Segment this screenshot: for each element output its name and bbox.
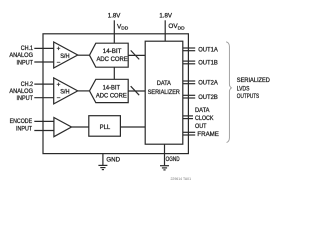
svg-text:PLL: PLL (100, 124, 111, 131)
svg-text:ADC CORE: ADC CORE (96, 56, 127, 63)
S/H amplifier A1 (CH1) (54, 42, 78, 68)
wire S/H2 to ADC2 (78, 90, 90, 92)
svg-text:ANALOG: ANALOG (9, 52, 33, 59)
svg-text:ENCODE: ENCODE (10, 118, 33, 125)
bus slash 2 (131, 86, 140, 95)
svg-text:229614 TA01: 229614 TA01 (171, 177, 192, 181)
svg-text:OUT2A: OUT2A (198, 80, 218, 87)
svg-text:1.8V: 1.8V (159, 13, 172, 20)
VDD supply line between ADC cores (113, 67, 115, 79)
svg-text:14-BIT: 14-BIT (103, 48, 122, 55)
ADC core 2 pentagon (90, 79, 129, 102)
svg-text:SERIALIZED: SERIALIZED (237, 77, 270, 84)
svg-text:SERIALIZER: SERIALIZER (148, 89, 180, 96)
svg-text:−: − (57, 95, 61, 102)
svg-text:OGND: OGND (166, 156, 180, 163)
svg-text:OUTPUTS: OUTPUTS (237, 93, 259, 100)
pin OUT1A pair (183, 47, 195, 49)
svg-text:OUT1B: OUT1B (198, 60, 218, 67)
VDD supply line top (113, 20, 115, 43)
wire ADC1 to serializer (128, 54, 145, 56)
svg-text:DATA: DATA (157, 80, 172, 87)
svg-text:CH.2: CH.2 (21, 81, 34, 88)
svg-text:LVDS: LVDS (237, 85, 250, 92)
brace serialized outputs (226, 42, 231, 143)
wire PLL to serializer (120, 126, 145, 128)
ADC core 1 pentagon (90, 43, 129, 67)
wire ENCODE - input (34, 130, 54, 132)
ground symbol GND (98, 165, 107, 169)
svg-text:ADC CORE: ADC CORE (96, 92, 127, 99)
svg-text:OUT2B: OUT2B (198, 94, 218, 101)
svg-text:OVDD: OVDD (168, 23, 185, 31)
wire CH1 - input (34, 61, 53, 63)
svg-text:GND: GND (106, 156, 120, 163)
svg-text:DATA: DATA (195, 107, 210, 114)
svg-text:ANALOG: ANALOG (9, 88, 33, 95)
data serializer box (145, 41, 183, 144)
svg-text:INPUT: INPUT (17, 60, 34, 67)
wire CH2 + input (34, 83, 53, 85)
svg-text:INPUT: INPUT (16, 126, 32, 133)
pin DATA CLOCK OUT pair (183, 115, 193, 117)
PLL box (89, 116, 121, 137)
GND drop wire (102, 154, 104, 166)
svg-text:OUT1A: OUT1A (198, 47, 218, 54)
wire CH1 + input (34, 47, 53, 49)
svg-text:INPUT: INPUT (17, 95, 34, 102)
svg-text:S/H: S/H (60, 89, 70, 96)
pin OUT1B pair (183, 60, 195, 62)
svg-text:CH.1: CH.1 (21, 45, 34, 52)
pin FRAME pair (183, 131, 195, 133)
wire encode buffer to PLL (72, 126, 89, 128)
svg-text:VDD: VDD (117, 23, 129, 31)
svg-text:−: − (57, 59, 61, 66)
bus slash 1 (131, 50, 140, 59)
svg-text:OUT: OUT (195, 123, 207, 130)
svg-text:1.8V: 1.8V (108, 13, 121, 20)
svg-text:FRAME: FRAME (197, 131, 219, 138)
wire ADC2 to serializer (128, 90, 145, 92)
svg-text:+: + (57, 81, 61, 88)
ground symbol OGND (160, 166, 169, 170)
svg-text:14-BIT: 14-BIT (103, 84, 120, 91)
S/H amplifier A2 (CH2) (54, 78, 78, 104)
pin OUT2B pair (183, 94, 195, 96)
svg-text:S/H: S/H (60, 53, 70, 60)
svg-text:CLOCK: CLOCK (195, 115, 214, 122)
OVDD supply line (164, 20, 166, 41)
pin OUT2A pair (183, 80, 195, 82)
svg-text:+: + (57, 46, 61, 53)
encode buffer A3 (54, 118, 72, 137)
OGND drop wire (164, 144, 166, 165)
wire CH2 - input (34, 97, 53, 99)
wire ENCODE + input (34, 120, 54, 122)
chip outline U1 (43, 34, 188, 154)
wire S/H1 to ADC1 (78, 54, 90, 56)
